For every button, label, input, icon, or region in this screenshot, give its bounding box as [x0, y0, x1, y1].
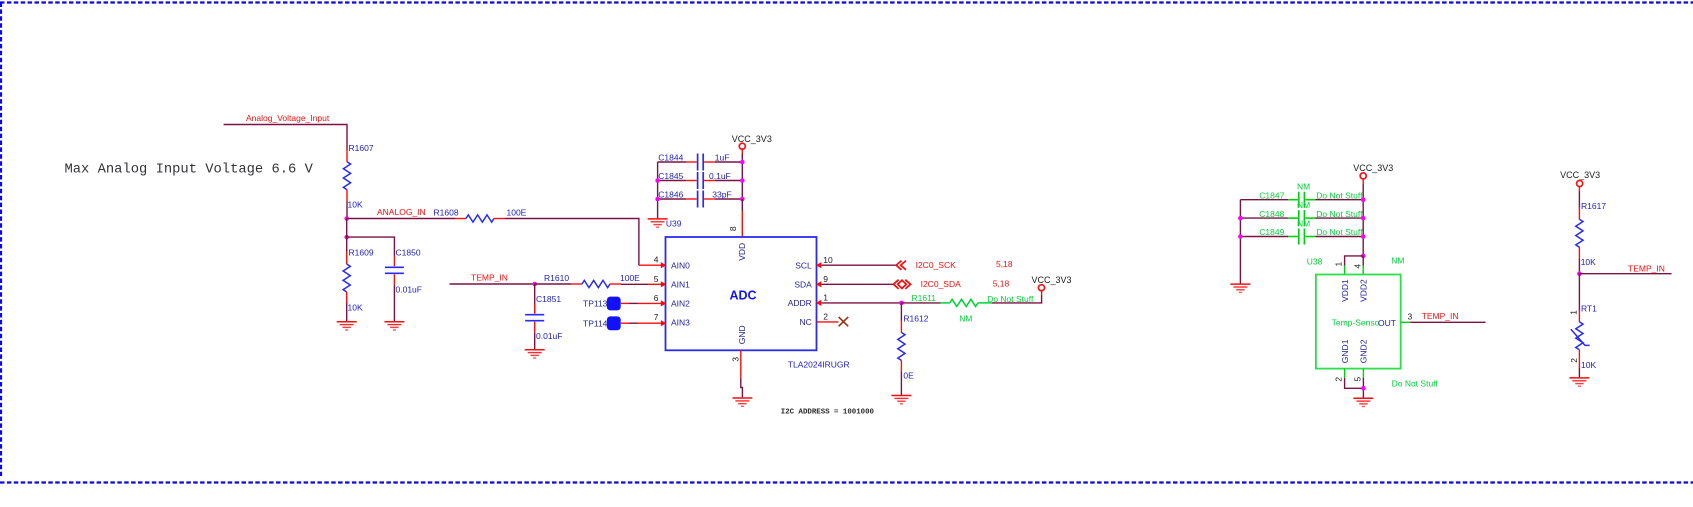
svg-text:10K: 10K	[348, 303, 363, 313]
op-amp U39 ADC chip body	[666, 237, 817, 350]
capacitor C1850	[385, 256, 404, 286]
svg-text:SDA: SDA	[794, 279, 812, 289]
svg-text:100E: 100E	[507, 208, 527, 218]
capacitor C1849 (NM)	[1240, 218, 1363, 244]
wire VCC to R1617	[1578, 192, 1580, 208]
wire R1608 to ADC AIN0	[505, 219, 639, 266]
svg-text:I2C0_SCK: I2C0_SCK	[916, 260, 956, 270]
svg-text:TP113: TP113	[583, 299, 608, 309]
wire VDD pin lead	[741, 199, 743, 211]
node dots on cap buses	[740, 160, 745, 165]
wire R1609 to ground	[346, 304, 348, 322]
wire VDD1 branch	[1345, 256, 1364, 266]
svg-text:NM: NM	[1297, 200, 1310, 210]
svg-text:VDD: VDD	[737, 243, 747, 261]
wire pin lead AIN0	[639, 264, 663, 266]
svg-text:VCC_3V3: VCC_3V3	[1353, 163, 1393, 173]
svg-text:Do Not Stuff: Do Not Stuff	[1316, 227, 1363, 237]
svg-text:Analog_Voltage_Input: Analog_Voltage_Input	[246, 113, 330, 123]
wire R1611 to VCC	[992, 295, 1042, 303]
wire VCC bus down to U38	[1362, 184, 1364, 256]
svg-text:Max Analog Input Voltage 6.6 V: Max Analog Input Voltage 6.6 V	[65, 162, 314, 178]
wire node to R1608	[347, 218, 456, 220]
wire ADDR pin lead	[817, 302, 823, 304]
wire GND1 branch	[1344, 369, 1346, 378]
wire ADDR to junction	[822, 302, 901, 304]
node GND junction	[1361, 386, 1366, 391]
thermistor RT1	[1571, 311, 1590, 369]
svg-text:VCC_3V3: VCC_3V3	[1560, 170, 1600, 180]
wire C1850 to ground	[393, 285, 395, 321]
node TEMP_IN junction at R1617	[1577, 271, 1582, 276]
svg-text:VCC_3V3: VCC_3V3	[1032, 275, 1072, 285]
wire left bus U38 caps	[1239, 200, 1241, 284]
resistor R1608	[455, 215, 505, 222]
svg-text:ANALOG_IN: ANALOG_IN	[377, 207, 426, 217]
wire SDA to offpage	[822, 283, 893, 285]
svg-text:33pF: 33pF	[712, 189, 731, 199]
svg-text:1uF: 1uF	[715, 152, 730, 162]
ground R1612	[891, 396, 911, 404]
svg-text:3: 3	[730, 357, 740, 362]
resistor R1612	[900, 303, 902, 321]
svg-text:5: 5	[1353, 377, 1363, 382]
capacitor C1844	[658, 152, 743, 170]
ground ADC	[732, 398, 752, 406]
wire TEMP_IN out	[1579, 273, 1671, 275]
svg-text:8: 8	[728, 226, 738, 231]
wire C1851 to ground	[534, 332, 536, 349]
wire R1612 to ground	[900, 372, 902, 395]
svg-text:5,18: 5,18	[993, 278, 1010, 288]
wire Analog_Voltage_Input horizontal	[224, 125, 347, 151]
testpoint TP113	[583, 297, 663, 311]
wire SDA pin lead	[817, 283, 823, 285]
svg-text:RT1: RT1	[1581, 304, 1597, 314]
node ADDR junction	[899, 301, 904, 306]
wire node down to RT1	[1578, 274, 1580, 311]
power VCC_3V3 at R1617	[1560, 170, 1600, 191]
resistor R1609	[343, 252, 350, 304]
svg-text:4: 4	[654, 255, 659, 265]
svg-text:R1610: R1610	[544, 273, 569, 283]
svg-text:0.1uF: 0.1uF	[709, 171, 731, 181]
svg-text:AIN2: AIN2	[671, 299, 690, 309]
ground R1609	[337, 322, 357, 330]
testpoint TP114	[583, 316, 663, 330]
capacitor C1846	[658, 189, 743, 207]
svg-text:2: 2	[823, 312, 828, 322]
svg-text:I2C0_SDA: I2C0_SDA	[921, 279, 961, 289]
no-connect X	[839, 317, 849, 326]
svg-text:5: 5	[654, 274, 659, 284]
ground U39 caps	[648, 219, 668, 227]
svg-text:R1611: R1611	[912, 293, 937, 303]
svg-text:AIN1: AIN1	[671, 279, 690, 289]
svg-text:R1609: R1609	[349, 248, 374, 258]
capacitor C1848 (NM)	[1240, 200, 1363, 226]
wire SCL pin lead	[817, 264, 823, 266]
svg-text:VCC_3V3: VCC_3V3	[732, 134, 772, 144]
svg-text:4: 4	[1352, 264, 1362, 269]
node TEMP_IN junction	[532, 282, 537, 287]
svg-text:GND1: GND1	[1340, 339, 1350, 363]
wire RT1 to ground	[1578, 368, 1580, 377]
svg-text:C1847: C1847	[1259, 190, 1284, 200]
svg-text:R1607: R1607	[349, 143, 374, 153]
svg-text:1: 1	[1569, 310, 1579, 315]
wire R1610 to ADC AIN1	[621, 283, 648, 285]
offpage connector I2C0_SDA	[893, 280, 910, 289]
ground C1850	[384, 322, 404, 330]
wire junction to R1610	[535, 283, 572, 285]
svg-text:AIN3: AIN3	[671, 318, 690, 328]
svg-text:TLA2024IRUGR: TLA2024IRUGR	[788, 359, 850, 369]
node ANALOG_IN junction	[344, 216, 349, 221]
svg-text:C1849: C1849	[1259, 227, 1284, 237]
svg-text:10: 10	[823, 255, 833, 265]
resistor R1611 (green, not stuffed)	[940, 299, 992, 306]
svg-text:Do Not Stuff: Do Not Stuff	[1316, 190, 1363, 200]
svg-text:C1850: C1850	[396, 248, 421, 258]
ground RT1	[1569, 378, 1589, 386]
svg-text:0.01uF: 0.01uF	[536, 331, 562, 341]
capacitor C1851	[525, 284, 544, 332]
wire VCC bus down	[741, 154, 743, 199]
svg-text:TEMP_IN: TEMP_IN	[1422, 311, 1459, 321]
svg-text:TP114: TP114	[583, 318, 608, 328]
wire pin lead AIN1	[648, 283, 663, 285]
wire junction down to R1609	[346, 219, 348, 253]
svg-text:U38: U38	[1307, 256, 1323, 266]
svg-text:3: 3	[1408, 312, 1413, 322]
svg-text:NC: NC	[800, 317, 812, 327]
power VCC_3V3 above U38	[1353, 163, 1393, 184]
ground C1851	[525, 350, 545, 358]
svg-text:Temp-Senso: Temp-Senso	[1332, 318, 1380, 328]
svg-text:OUT: OUT	[1378, 318, 1396, 328]
wire GND2 branch	[1362, 369, 1364, 378]
svg-text:1: 1	[823, 293, 828, 303]
offpage connector I2C0_SCK	[896, 261, 906, 270]
wire left cap bus	[657, 162, 659, 218]
svg-text:NM: NM	[1297, 218, 1310, 228]
junction below ANALOG_IN	[344, 235, 349, 240]
wire OUT pin lead	[1401, 321, 1411, 323]
capacitor C1847 (NM)	[1240, 182, 1363, 208]
svg-text:GND2: GND2	[1359, 339, 1369, 363]
svg-text:Do Not Stuff: Do Not Stuff	[1392, 379, 1439, 389]
svg-text:NM: NM	[959, 314, 972, 324]
svg-text:U39: U39	[666, 219, 682, 229]
resistor R1617	[1576, 207, 1583, 259]
svg-text:1: 1	[1334, 262, 1344, 267]
resistor R1607	[343, 150, 350, 202]
power VCC_3V3 at R1611	[1038, 285, 1044, 291]
wire ADC GND pin to ground	[740, 350, 742, 377]
svg-text:10K: 10K	[348, 200, 363, 210]
svg-text:0E: 0E	[903, 371, 914, 381]
wire R1607 to node	[346, 202, 348, 219]
wire VDD2 branch	[1362, 256, 1364, 266]
svg-text:5,18: 5,18	[996, 259, 1013, 269]
svg-text:AIN0: AIN0	[671, 260, 690, 270]
svg-text:VDD2: VDD2	[1359, 279, 1369, 302]
svg-text:C1848: C1848	[1259, 209, 1284, 219]
svg-text:TEMP_IN: TEMP_IN	[471, 273, 508, 283]
wire R1617 to node	[1578, 259, 1580, 274]
svg-text:C1845: C1845	[658, 171, 683, 181]
svg-text:C1846: C1846	[658, 189, 683, 199]
svg-text:NM: NM	[1297, 182, 1310, 192]
svg-text:NM: NM	[1391, 255, 1404, 265]
svg-text:R1612: R1612	[903, 314, 928, 324]
power VCC_3V3 above U39 caps	[732, 134, 772, 154]
wire SCL to offpage	[822, 264, 896, 266]
svg-text:C1851: C1851	[536, 294, 561, 304]
transistor U38 temp sensor body	[1316, 275, 1401, 369]
svg-text:0.01uF: 0.01uF	[396, 285, 422, 295]
svg-text:C1844: C1844	[658, 152, 683, 162]
ground U38	[1353, 398, 1373, 406]
svg-text:Do Not Stuff: Do Not Stuff	[1316, 209, 1363, 219]
svg-text:2: 2	[1569, 358, 1579, 363]
wire OUT to TEMP_IN	[1410, 321, 1485, 323]
svg-text:TEMP_IN: TEMP_IN	[1628, 263, 1665, 273]
node dots U38 cap buses	[1238, 216, 1243, 221]
capacitor C1845	[658, 171, 743, 189]
svg-text:GND: GND	[737, 325, 747, 344]
svg-text:7: 7	[654, 312, 659, 322]
svg-text:R1617: R1617	[1581, 201, 1606, 211]
svg-text:6: 6	[654, 293, 659, 303]
wire NC pin lead	[817, 321, 839, 323]
svg-text:ADC: ADC	[730, 288, 757, 302]
svg-text:10K: 10K	[1581, 360, 1596, 370]
resistor R1610	[571, 280, 621, 287]
svg-text:R1608: R1608	[434, 208, 459, 218]
svg-text:I2C ADDRESS = 1001000: I2C ADDRESS = 1001000	[781, 409, 875, 417]
svg-text:SCL: SCL	[795, 260, 812, 270]
wire TEMP_IN	[450, 283, 535, 285]
svg-text:10K: 10K	[1581, 257, 1596, 267]
wire junction to R1611	[901, 302, 940, 304]
svg-text:9: 9	[823, 274, 828, 284]
wire junction to C1850 branch	[347, 237, 395, 256]
svg-text:VDD1: VDD1	[1340, 279, 1350, 302]
ground U38 caps	[1230, 284, 1250, 292]
svg-text:2: 2	[1334, 377, 1344, 382]
svg-text:100E: 100E	[620, 273, 640, 283]
svg-text:ADDR: ADDR	[788, 298, 812, 308]
